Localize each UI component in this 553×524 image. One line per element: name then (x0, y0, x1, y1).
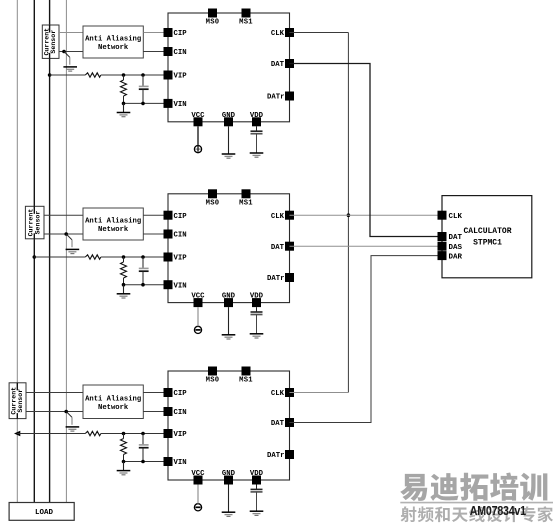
svg-text:Network: Network (98, 44, 129, 52)
pin DATr (U3) (267, 450, 294, 460)
earth ground (CIN1 net) (63, 52, 77, 72)
pin MS1 (U3) (239, 367, 253, 385)
pin CIP (U1) (164, 28, 188, 38)
wire: voltage tap to series resistor (phase 2) (34, 256, 85, 258)
svg-text:VIN: VIN (174, 282, 187, 290)
watermark: small text (401, 506, 553, 522)
junction: divider node at filter cap (phase 2) (141, 255, 145, 259)
wire: resistor to VIP pin (phase 3) (101, 433, 168, 435)
pin VDD (U2) (250, 293, 264, 308)
pin VIP (U2) (164, 253, 188, 263)
pin MS0 (U1) (206, 9, 220, 27)
wire: phase line C (vertical) (49, 0, 51, 503)
svg-text:VDD: VDD (250, 112, 264, 120)
pin DAR (STPMC1) (438, 251, 463, 261)
load block (9, 503, 74, 521)
pin CIN (U2) (164, 230, 187, 240)
pin CLK (U1) (271, 28, 294, 38)
anti-aliasing network block (phase 1) (83, 26, 143, 58)
wire: VIN net (phase 3) (124, 461, 169, 463)
VCC supply terminal (U1) (194, 126, 201, 152)
junction: VIN net at shunt (phase 1) (122, 102, 126, 106)
watermark: underline (400, 502, 553, 504)
pin MS1 (U2) (239, 189, 253, 207)
wire: voltage tap to series resistor (phase 1) (50, 74, 86, 76)
svg-text:CIN: CIN (174, 409, 187, 417)
svg-text:DATr: DATr (267, 94, 285, 102)
label: CALCULATOR STPMC1 (463, 227, 511, 247)
wire: sensor3 return to anti-aliasing input (CIN net) (26, 411, 83, 413)
wire: clock bus (vertical) (347, 33, 349, 393)
wire: phase line B (vertical) (33, 0, 35, 503)
watermark: big text (400, 473, 547, 502)
pin MS1 (U1) (239, 9, 253, 27)
pin GND (U1) (222, 112, 236, 127)
resistor (series, voltage divider phase 3) (85, 431, 101, 435)
pin MS0 (U2) (206, 189, 220, 207)
pin CIP (U2) (164, 211, 188, 221)
junction: voltage tap on phase line (phase 1) (48, 73, 52, 77)
svg-text:CALCULATOR: CALCULATOR (463, 227, 511, 236)
resistor (series, voltage divider phase 1) (85, 73, 101, 77)
svg-text:DAS: DAS (449, 244, 463, 252)
pin VCC (U2) (191, 293, 205, 308)
svg-text:VIN: VIN (174, 459, 187, 467)
pin CLK (U2) (271, 211, 294, 221)
resistor (series, voltage divider phase 2) (85, 255, 101, 259)
current sensor CT1 (42, 25, 59, 58)
pin CIP (U3) (164, 388, 188, 398)
pin CIN (U1) (164, 47, 187, 57)
wire: shunt resistor to VIN net (phase 2) (123, 278, 125, 285)
svg-text:GND: GND (222, 112, 236, 120)
ground (VIN net, phase 3) (117, 462, 131, 475)
resistor (shunt to VIN net, phase 1) (121, 80, 127, 96)
wire: anti-aliasing output to CIN pin (phase 2) (143, 233, 168, 235)
wire: sensor2 output to anti-aliasing input (CIP net) (44, 214, 83, 216)
ground (VDD decoupling U2) (250, 334, 264, 338)
wire: resistor to VIP pin (phase 1) (101, 74, 168, 76)
metering IC U3 (phase 3) body (168, 371, 290, 480)
svg-text:Network: Network (98, 404, 129, 412)
wire: node to shunt resistor (phase 1) (123, 75, 125, 80)
VCC supply terminal (U3) (194, 485, 201, 511)
resistor (shunt to VIN net, phase 3) (121, 439, 127, 455)
svg-text:VDD: VDD (250, 470, 264, 478)
current sensor CT3 (9, 383, 26, 419)
junction: VIN net at shunt (phase 3) (122, 460, 126, 464)
pin VIP (U1) (164, 71, 188, 81)
capacitor (VDD decoupling U2) (251, 307, 263, 334)
junction: divider node at filter cap (phase 1) (141, 73, 145, 77)
ground (VDD decoupling U1) (250, 153, 264, 157)
ground (GND pin U3) (222, 485, 236, 517)
junction: VIN net at cap (phase 2) (141, 283, 145, 287)
pin CIN (U3) (164, 407, 187, 417)
wire: U1 DAT to calculator DAT (290, 64, 443, 237)
svg-text:CLK: CLK (449, 213, 463, 221)
svg-text:CLK: CLK (271, 390, 285, 398)
junction: divider node at filter cap (phase 3) (141, 432, 145, 436)
svg-text:VCC: VCC (191, 112, 205, 120)
capacitor (filter across VIP-VIN, phase 3) (139, 434, 149, 462)
svg-text:Anti Aliasing: Anti Aliasing (85, 36, 141, 44)
anti-aliasing network block (phase 3) (83, 385, 143, 419)
svg-text:CIP: CIP (174, 213, 188, 221)
pin DATr (U2) (267, 273, 294, 283)
wire: U1 CLK to clock bus (290, 32, 349, 34)
VCC supply terminal (U2) (194, 307, 201, 333)
junction: CIN3 ground tap (64, 410, 68, 414)
pin VDD (U3) (250, 470, 264, 485)
junction: voltage tap arrow on phase line (phase 3) (14, 431, 20, 437)
capacitor (VDD decoupling U1) (251, 126, 263, 153)
svg-text:GND: GND (222, 293, 236, 301)
svg-text:Sensor: Sensor (50, 30, 57, 54)
svg-text:VIN: VIN (174, 101, 187, 109)
pin GND (U2) (222, 293, 236, 308)
wire: sensor2 return to anti-aliasing input (CIN net) (44, 233, 83, 235)
wire: sensor1 output to anti-aliasing input (CIP net) (59, 32, 83, 34)
svg-text:VCC: VCC (191, 293, 205, 301)
pin VCC (U1) (191, 112, 205, 127)
junction: divider node at shunt resistor (phase 2) (122, 255, 126, 259)
svg-text:MS0: MS0 (206, 199, 220, 207)
wire: anti-aliasing output to CIP pin (phase 2) (143, 214, 168, 216)
ground (VIN net, phase 1) (117, 103, 131, 116)
pin DAT (U3) (271, 418, 294, 428)
svg-text:DAT: DAT (271, 61, 285, 69)
svg-text:VDD: VDD (250, 293, 264, 301)
svg-text:MS0: MS0 (206, 377, 220, 385)
capacitor (filter across VIP-VIN, phase 2) (139, 257, 149, 285)
resistor (shunt to VIN net, phase 2) (121, 262, 127, 278)
wire: resistor to VIP pin (phase 2) (101, 256, 168, 258)
metering IC U2 (phase 2) body (168, 194, 290, 303)
wire: VIN net (phase 2) (124, 284, 169, 286)
svg-text:AM07834v1: AM07834v1 (470, 503, 527, 518)
earth ground (CIN3 net) (66, 412, 80, 432)
pin VIP (U3) (164, 429, 188, 439)
svg-text:VCC: VCC (191, 470, 205, 478)
junction: clock bus / U2 CLK (347, 213, 351, 217)
pin VIN (U3) (164, 457, 187, 467)
capacitor (VDD decoupling U3) (251, 485, 263, 512)
svg-text:Network: Network (98, 226, 129, 234)
ground (GND pin U2) (222, 307, 236, 339)
ground (GND pin U1) (222, 126, 236, 158)
junction: VIN net at cap (phase 3) (141, 460, 145, 464)
junction: CIN2 ground tap (64, 232, 68, 236)
svg-text:GND: GND (222, 470, 236, 478)
junction: voltage tap on phase line (phase 2) (33, 255, 37, 259)
svg-text:Anti Aliasing: Anti Aliasing (85, 395, 141, 403)
wire: voltage tap to series resistor (phase 3) (17, 433, 85, 435)
svg-text:DATr: DATr (267, 452, 285, 460)
ground (VDD decoupling U3) (250, 511, 264, 515)
svg-text:MS1: MS1 (239, 377, 253, 385)
svg-text:DAT: DAT (271, 244, 285, 252)
junction: divider node at shunt resistor (phase 1) (122, 73, 126, 77)
svg-text:LOAD: LOAD (35, 509, 54, 517)
ground (VIN net, phase 2) (117, 285, 131, 298)
wire: anti-aliasing output to CIN pin (phase 3) (143, 411, 168, 413)
wire: shunt resistor to VIN net (phase 3) (123, 455, 125, 462)
wire: anti-aliasing output to CIP pin (phase 3) (143, 392, 168, 394)
svg-text:VIP: VIP (174, 255, 188, 263)
wire: U3 CLK to clock bus (290, 392, 349, 394)
pin GND (U3) (222, 470, 236, 485)
junction: VIN net at cap (phase 1) (141, 102, 145, 106)
pin MS0 (U3) (206, 367, 220, 385)
svg-text:DAT: DAT (271, 420, 285, 428)
anti-aliasing network block (phase 2) (83, 208, 143, 240)
svg-text:MS0: MS0 (206, 19, 220, 27)
pin DAT (STPMC1) (438, 232, 463, 242)
wire: node to shunt resistor (phase 2) (123, 257, 125, 262)
pin VCC (U3) (191, 470, 205, 485)
wire: calculator DAR to U3 DAT (290, 256, 443, 423)
calculator IC STPMC1 body (442, 196, 532, 278)
pin VDD (U1) (250, 112, 264, 127)
capacitor (filter across VIP-VIN, phase 1) (139, 75, 149, 103)
svg-text:Sensor: Sensor (17, 389, 24, 413)
wire: sensor1 return to anti-aliasing input (CIN net) (59, 51, 83, 53)
wire: neutral line N (vertical) (65, 0, 67, 503)
junction: CIN1 ground tap (62, 50, 66, 54)
pin CLK (U3) (271, 388, 294, 398)
wire: node to shunt resistor (phase 3) (123, 434, 125, 439)
wire: U2 CLK to calculator CLK (290, 214, 443, 216)
wire: VIN net (phase 1) (124, 102, 169, 104)
svg-text:CIP: CIP (174, 390, 188, 398)
svg-text:DATr: DATr (267, 275, 285, 283)
svg-text:CIN: CIN (174, 232, 187, 240)
wire: anti-aliasing output to CIP pin (phase 1) (143, 32, 168, 34)
pin DATr (U1) (267, 92, 294, 102)
svg-text:CLK: CLK (271, 213, 285, 221)
label: figure id AM07834v1 (470, 503, 527, 518)
wire: sensor3 output to anti-aliasing input (CIP net) (26, 392, 83, 394)
wire: anti-aliasing output to CIN pin (phase 1) (143, 51, 168, 53)
junction: VIN net at shunt (phase 2) (122, 283, 126, 287)
earth ground (CIN2 net) (66, 234, 80, 254)
current sensor CT2 (25, 206, 44, 239)
wire: shunt resistor to VIN net (phase 1) (123, 96, 125, 103)
pin VIN (U1) (164, 99, 187, 109)
pin DAT (U1) (271, 59, 294, 69)
svg-text:STPMC1: STPMC1 (473, 238, 502, 247)
svg-text:Sensor: Sensor (34, 211, 41, 235)
metering IC U1 (phase 1) body (168, 13, 290, 122)
wire: U2 DAT to calculator DAS (290, 245, 443, 247)
pin VIN (U2) (164, 280, 187, 290)
svg-text:CLK: CLK (271, 30, 285, 38)
svg-text:MS1: MS1 (239, 19, 253, 27)
pin DAS (STPMC1) (438, 242, 463, 252)
svg-text:VIP: VIP (174, 73, 188, 81)
svg-text:CIP: CIP (174, 30, 188, 38)
pin DAT (U2) (271, 242, 294, 252)
svg-text:DAR: DAR (449, 253, 463, 261)
svg-text:MS1: MS1 (239, 199, 253, 207)
svg-text:CIN: CIN (174, 49, 187, 57)
junction: divider node at shunt resistor (phase 3) (122, 432, 126, 436)
pin CLK (STPMC1) (438, 211, 463, 221)
svg-text:Anti Aliasing: Anti Aliasing (85, 218, 141, 226)
svg-text:DAT: DAT (449, 234, 463, 242)
svg-text:VIP: VIP (174, 431, 188, 439)
wire: phase line A (vertical) (16, 0, 18, 503)
